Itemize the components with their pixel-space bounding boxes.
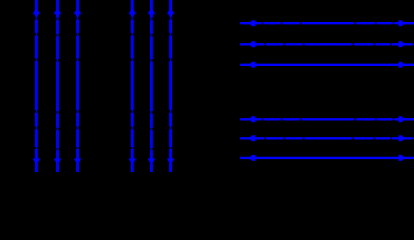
dashed shaft: [150, 0, 153, 172]
arrowhead up: [33, 8, 39, 15]
vertical double-arrow field line V2: [54, 0, 60, 172]
shaft glow: [131, 0, 133, 172]
horizontal double-arrow field line H3 (solid): [240, 62, 414, 68]
arrowhead left: [249, 135, 256, 141]
shaft glow: [150, 0, 152, 172]
vertical double-arrow field line V1: [33, 0, 39, 172]
solid shaft: [240, 64, 414, 66]
shaft glow: [240, 137, 414, 139]
shaft glow: [170, 0, 172, 172]
arrowhead right: [399, 116, 405, 122]
shaft glow: [240, 43, 414, 45]
dashed shaft: [131, 0, 134, 172]
shaft glow: [77, 0, 79, 172]
shaft glow: [240, 118, 414, 120]
arrowhead down: [167, 158, 173, 164]
arrowhead right: [399, 62, 405, 68]
arrowhead up: [148, 8, 154, 15]
arrowhead right: [399, 20, 405, 26]
arrowhead right: [399, 41, 405, 47]
dashed shaft: [169, 0, 172, 172]
dashed shaft: [76, 0, 79, 172]
arrowhead up: [74, 8, 80, 15]
dashed shaft: [56, 0, 59, 172]
shaft glow: [35, 0, 37, 172]
arrowhead left: [249, 155, 256, 161]
dashed shaft: [240, 22, 414, 24]
arrowhead down: [33, 158, 39, 164]
dashed shaft: [240, 118, 414, 120]
horizontal double-arrow field line H1: [240, 20, 414, 26]
arrowhead left: [249, 20, 256, 26]
arrowhead up: [54, 8, 60, 15]
dashed shaft: [240, 137, 414, 139]
horizontal double-arrow field line H6 (solid): [240, 155, 414, 161]
arrowhead right: [399, 135, 405, 141]
shaft glow: [240, 22, 414, 24]
arrowhead left: [249, 41, 256, 47]
vertical double-arrow field line V3: [74, 0, 80, 172]
vertical double-arrow field line V4: [129, 0, 135, 172]
arrowhead down: [129, 158, 135, 164]
arrowhead up: [129, 8, 135, 15]
arrowhead right: [399, 155, 405, 161]
arrowhead down: [54, 158, 60, 164]
solid shaft: [240, 157, 414, 159]
horizontal double-arrow field line H2: [240, 41, 414, 47]
vertical double-arrow field line V5: [148, 0, 154, 172]
arrowhead up: [167, 8, 173, 15]
arrowhead down: [148, 158, 154, 164]
dashed shaft: [35, 0, 38, 172]
vertical double-arrow field line V6: [167, 0, 173, 172]
dashed shaft: [240, 43, 414, 45]
arrowhead down: [74, 158, 80, 164]
horizontal double-arrow field line H5: [240, 135, 414, 141]
horizontal double-arrow field line H4: [240, 116, 414, 122]
shaft glow: [57, 0, 59, 172]
arrowhead left: [249, 62, 256, 68]
arrowhead left: [249, 116, 256, 122]
